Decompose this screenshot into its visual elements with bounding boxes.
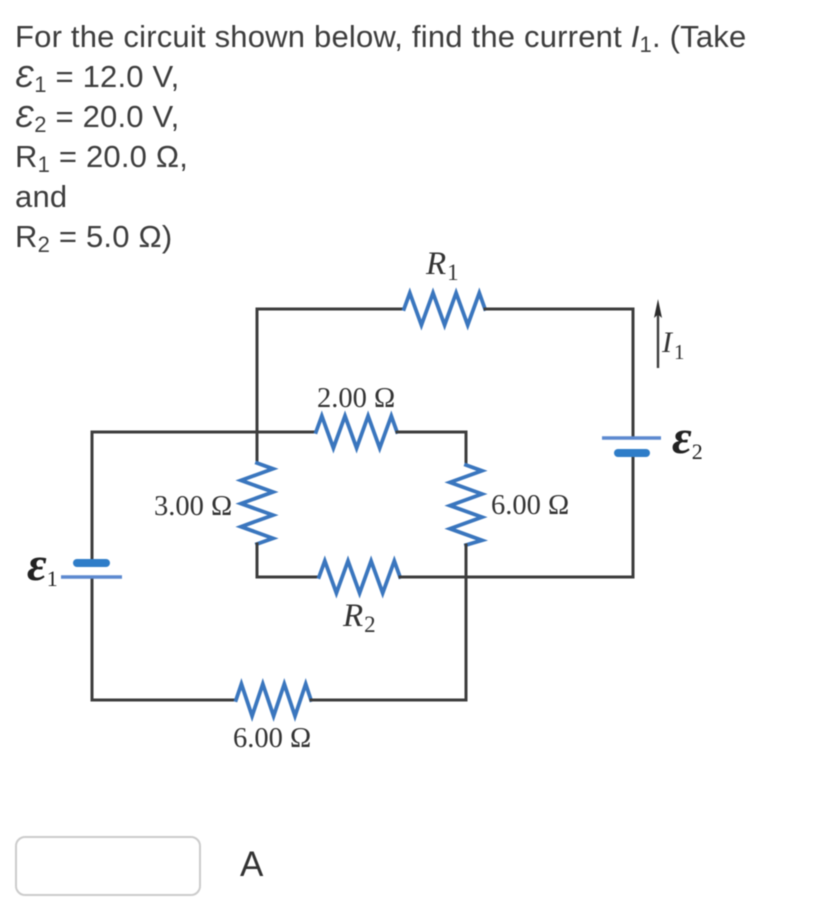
wire left vertical lower (x=257) — [256, 544, 259, 577]
svg-text:ε1: ε1 — [27, 538, 58, 591]
wire middle horizontal left segment — [92, 431, 316, 434]
wire left branch vertical upper (x=92) to battery e1 — [91, 432, 94, 560]
svg-text:R2: R2 — [342, 598, 376, 637]
wire right vertical lower (x=633) from battery e2 — [632, 456, 635, 577]
wire right vertical upper (x=633) to battery e2 — [632, 309, 635, 437]
wire bottom left segment — [92, 699, 236, 702]
svg-text:3.00 Ω: 3.00 Ω — [154, 491, 232, 522]
svg-text:2.00 Ω: 2.00 Ω — [317, 383, 395, 414]
wire top-loop top-right segment — [485, 308, 633, 311]
wire mid-right vertical upper (x=466) — [465, 432, 468, 465]
answer input box — [15, 836, 201, 896]
svg-text:6.00 Ω: 6.00 Ω — [491, 490, 569, 521]
battery E2 thin plate — [602, 436, 661, 439]
current arrow I1 — [654, 299, 662, 368]
answer unit label A — [240, 845, 263, 885]
wire middle horizontal right segment — [397, 431, 466, 434]
svg-text:6.00 Ω: 6.00 Ω — [233, 723, 311, 754]
resistor 3.00 ohm — [241, 463, 273, 544]
svg-text:R1: R1 — [425, 246, 459, 285]
wire bottom right segment — [311, 699, 466, 702]
wire mid-right vertical lower (x=466) — [465, 545, 468, 700]
battery E1 thick plate — [77, 559, 106, 567]
battery E2 thick plate — [618, 449, 646, 457]
wire left vertical upper (x=257) — [256, 309, 259, 463]
resistor 6.00 ohm right — [450, 465, 482, 545]
svg-text:I1: I1 — [661, 326, 685, 364]
wire middle-loop bottom right segment — [400, 576, 633, 579]
resistor R2 — [319, 561, 400, 593]
resistor 2.00 ohm — [316, 416, 397, 448]
wire top-loop top-left segment — [257, 308, 404, 311]
wire left branch vertical lower (x=92) from battery e1 — [91, 578, 94, 700]
wire middle-loop bottom left segment — [257, 576, 319, 579]
question text — [15, 17, 746, 257]
resistor R1 — [404, 293, 485, 325]
svg-text:ε2: ε2 — [672, 411, 703, 464]
resistor 6.00 ohm bottom — [236, 684, 311, 716]
battery E1 thin plate — [61, 575, 122, 578]
